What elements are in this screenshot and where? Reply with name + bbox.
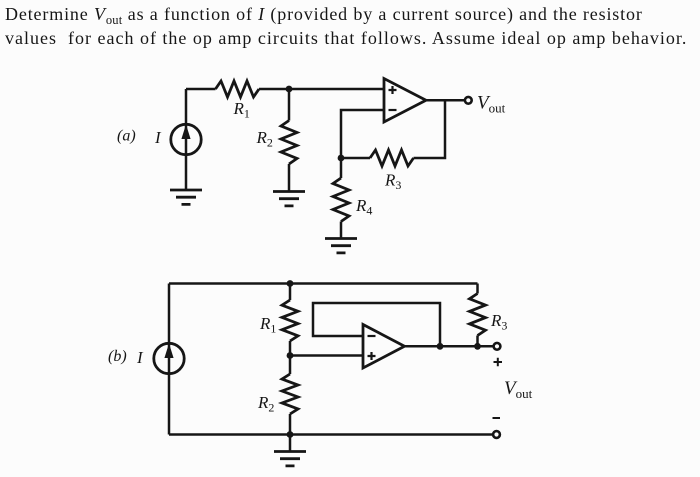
svg-text:R4: R4: [355, 196, 372, 218]
wire: R4 bottom lead (a): [340, 222, 343, 239]
wire: bottom rail (b): [169, 433, 493, 436]
resistor R4 (a) zigzag: [333, 178, 349, 222]
wire: op-amp output to terminal (b): [405, 345, 494, 348]
svg-text:R1: R1: [259, 314, 276, 336]
node: bottom rail / R2 / ground junction (b): [287, 431, 294, 438]
op-amp U1 (a): [384, 79, 426, 123]
svg-text:R2: R2: [257, 393, 274, 415]
wire: R2 top lead (b): [289, 356, 292, 375]
plus sign (b): [494, 358, 503, 366]
op-amp U2 (b): [363, 325, 405, 369]
resistor R2 (a) zigzag: [281, 121, 297, 165]
wire: R4 top lead (a): [340, 158, 343, 178]
resistor R1 (a) zigzag: [216, 81, 260, 97]
wire: feedback loop (b), - input up and over to output: [313, 303, 440, 346]
wire: R2 bottom lead (b): [289, 414, 292, 435]
resistor R3 (b) zigzag: [470, 294, 486, 336]
wire: top rail right segment (a), R1 to op-amp + input: [259, 88, 384, 91]
resistor R3 (a) zigzag: [370, 150, 414, 166]
wire: op-amp output to terminal (a): [426, 99, 465, 102]
wire: top rail left segment (a), source to R1: [186, 88, 216, 91]
svg-text:R3: R3: [490, 311, 507, 333]
svg-text:(b): (b): [108, 348, 127, 365]
node: R3/R4 feedback junction (a): [338, 155, 345, 162]
wire: current source stem (a): [185, 89, 188, 190]
ground below current source (a): [170, 190, 202, 204]
wire: R2 bottom lead (a): [288, 164, 291, 192]
wire: R3 bottom lead (b): [476, 336, 479, 347]
svg-text:I: I: [136, 348, 144, 367]
output terminal + (b): [494, 343, 501, 350]
node: R3/output junction (b): [474, 343, 481, 350]
ground below R2 (a): [273, 192, 305, 206]
node: R1/R2/op-amp junction (a): [286, 86, 293, 93]
svg-text:Vout: Vout: [504, 378, 533, 401]
wire: node to R3 (a): [341, 157, 370, 160]
problem statement text: [5, 2, 700, 51]
svg-text:(a): (a): [117, 128, 136, 145]
wire: left branch through current source (b): [168, 284, 171, 435]
ground below R4 (a): [325, 239, 357, 253]
node: R1/R2/op-amp + input junction (b): [287, 352, 294, 359]
current source I (a): [171, 124, 201, 154]
node: feedback/output junction (b): [437, 343, 444, 350]
wire: R3 to output drop (a): [414, 100, 446, 158]
output terminal Vout (a): [465, 97, 472, 104]
wire: top rail (b): [169, 282, 478, 285]
minus sign (b): [493, 417, 501, 419]
wire: R3 top lead from rail (b): [476, 284, 479, 294]
svg-text:R1: R1: [233, 99, 250, 121]
wire: mid node to op-amp + input (b): [290, 354, 363, 357]
svg-text:R3: R3: [384, 171, 401, 193]
wire: R2 top lead (a): [288, 89, 291, 121]
svg-text:I: I: [154, 128, 162, 147]
resistor R1 (b) zigzag: [282, 300, 298, 341]
ground (b): [289, 435, 292, 452]
current source I (b): [154, 343, 184, 373]
output terminal - (b): [493, 431, 500, 438]
svg-text:R2: R2: [256, 128, 273, 150]
wire: inverting input feedback (a), from - input down to node: [341, 110, 384, 158]
resistor R2 (b) zigzag: [282, 374, 298, 414]
svg-text:Vout: Vout: [477, 93, 506, 116]
node: top rail / R1 junction (b): [287, 280, 294, 287]
wire: R1 to mid node (b): [289, 341, 292, 356]
wire: R1 top lead (b): [289, 284, 292, 301]
